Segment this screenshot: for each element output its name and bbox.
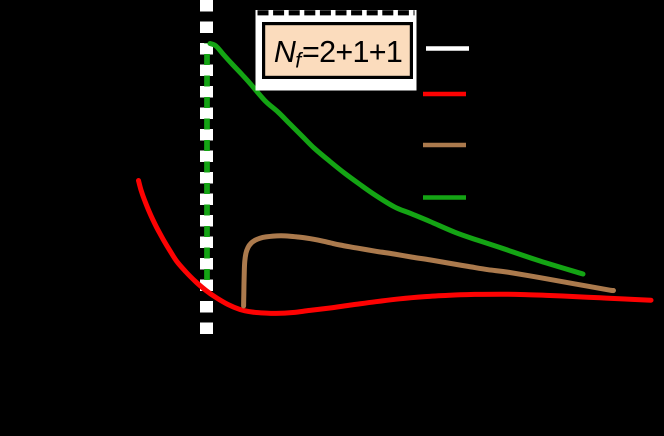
black dashed line over legend background	[258, 10, 415, 15]
green curve	[210, 44, 583, 275]
brown curve	[244, 236, 614, 306]
legend white background	[256, 10, 417, 91]
legend sample red	[423, 92, 466, 97]
svg-text:Nf=2+1+1: Nf=2+1+1	[274, 35, 402, 73]
legend sample green	[423, 195, 466, 200]
Nf label box	[264, 24, 412, 78]
legend sample brown	[423, 143, 466, 148]
legend sample white	[426, 46, 469, 51]
threshold line green dashes	[204, 43, 210, 280]
threshold line white halo dashes	[200, 0, 213, 336]
red curve	[139, 181, 652, 314]
